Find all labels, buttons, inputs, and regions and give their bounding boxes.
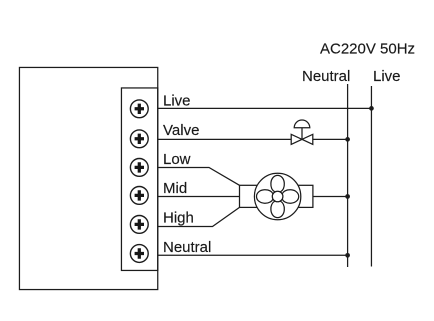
svg-text:Mid: Mid [163,180,187,197]
svg-text:Neutral: Neutral [302,68,350,85]
svg-text:Live: Live [163,92,191,109]
svg-text:Low: Low [163,151,191,168]
svg-text:High: High [163,210,194,227]
svg-text:Valve: Valve [163,122,199,139]
svg-text:Live: Live [373,68,401,85]
svg-text:AC220V 50Hz: AC220V 50Hz [320,40,415,57]
svg-text:Neutral: Neutral [163,239,211,256]
